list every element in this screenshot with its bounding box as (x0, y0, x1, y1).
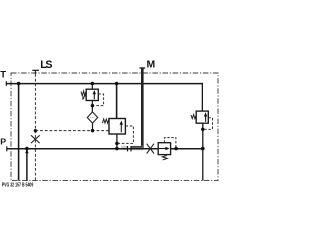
filter F1 (diamond) (87, 112, 97, 123)
node LS tee junction (34, 129, 37, 132)
node T line / V1 (91, 82, 95, 86)
spring of V3 (162, 155, 167, 160)
svg-text:LS: LS (40, 59, 52, 71)
wire T line corner down to relief V4 (201, 83, 203, 111)
node P line / compensator (115, 147, 119, 151)
node P line / V3 pilot (174, 147, 178, 151)
port LS label (40, 59, 52, 71)
wire M coupling stub (gray band) (121, 146, 143, 150)
svg-text:P: P (0, 136, 6, 146)
port T tick (5, 81, 7, 86)
pilot line of V4 (dashed) (205, 118, 213, 130)
svg-text:T: T (0, 69, 6, 80)
svg-text:PVG 32 157 B 5409: PVG 32 157 B 5409 (2, 182, 34, 188)
node T line / tank branch (17, 82, 21, 86)
wire compensator top (116, 84, 118, 119)
wire V1 bottom to filter (91, 101, 93, 113)
port P tick (6, 146, 8, 151)
port M tick (140, 67, 146, 69)
node V2 pilot junction (115, 142, 119, 146)
spring of V1 with adjustment arrow (81, 90, 87, 100)
wire relief valve V1 top (91, 84, 93, 90)
pilot line of V2 (dashed) (119, 126, 134, 143)
port M label (147, 60, 156, 71)
spring of V4 (191, 115, 196, 119)
node V4 pilot junction (201, 128, 205, 132)
wire M gauge line (thick) (141, 69, 144, 150)
coupling ticks on M stub (128, 146, 132, 151)
enclosure border (dash-dot) (11, 73, 218, 181)
wire LS vertical dashed (34, 70, 36, 180)
wire compensator bottom (116, 134, 118, 149)
wire tank branch down (left) (18, 84, 20, 181)
wire pump supply line with arrow (25, 149, 29, 181)
relief valve V4 body (196, 111, 208, 123)
pilot line of V1 (dashed) (95, 94, 104, 106)
node P line end / V4 (201, 147, 205, 151)
relief valve V1 body (86, 89, 98, 100)
node P line / pump supply (25, 147, 29, 151)
flow control valve V3 body (158, 143, 170, 155)
wire T line (6, 83, 203, 85)
wire P line overlay through coupling (117, 148, 146, 150)
wire P line (7, 148, 203, 150)
port P label (0, 136, 6, 146)
svg-text:M: M (147, 60, 156, 71)
node V1 pilot junction (91, 104, 95, 108)
wire filter to LS line (92, 123, 94, 131)
port T label (0, 69, 6, 80)
pressure compensator valve V2 body (109, 119, 125, 135)
node filter / LS line (91, 129, 95, 133)
drawing number text (2, 182, 34, 188)
port LS tick (32, 69, 39, 71)
wire P end branch down (202, 149, 204, 181)
spring of V2 (102, 119, 109, 123)
node T line / compensator (115, 82, 119, 86)
plug X on P line (147, 144, 154, 154)
pilot line of V3 (dashed) (164, 138, 176, 148)
plug X on LS line (31, 135, 40, 143)
wire V4 bottom to P line (202, 123, 204, 148)
wire LS horizontal dashed (35, 130, 109, 132)
